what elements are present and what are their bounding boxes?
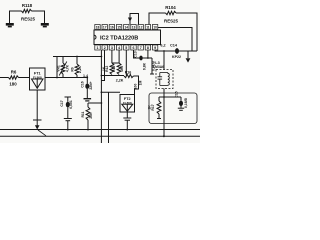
svg-text:1K: 1K bbox=[102, 66, 106, 71]
svg-text:1K: 1K bbox=[148, 105, 152, 110]
svg-text:2,2K: 2,2K bbox=[116, 79, 124, 83]
svg-text:VR1: VR1 bbox=[57, 65, 61, 72]
svg-text:7: 7 bbox=[140, 46, 142, 50]
svg-text:0,16/B: 0,16/B bbox=[184, 97, 188, 108]
svg-text:IC2 TDA1220B: IC2 TDA1220B bbox=[100, 36, 138, 42]
svg-text:C17: C17 bbox=[60, 100, 64, 106]
svg-text:13: 13 bbox=[132, 26, 136, 30]
svg-text:1: 1 bbox=[97, 46, 99, 50]
svg-text:5: 5 bbox=[125, 46, 127, 50]
svg-text:6,8K: 6,8K bbox=[142, 62, 146, 70]
svg-text:4,7K: 4,7K bbox=[66, 64, 70, 72]
svg-text:FL868: FL868 bbox=[123, 101, 132, 105]
svg-text:9: 9 bbox=[154, 46, 156, 50]
svg-text:1K5: 1K5 bbox=[120, 66, 124, 72]
svg-text:R9: R9 bbox=[71, 67, 75, 71]
svg-text:C14: C14 bbox=[170, 44, 178, 48]
svg-text:2,2K: 2,2K bbox=[78, 65, 82, 73]
svg-text:C16: C16 bbox=[81, 81, 85, 87]
svg-text:FL868: FL868 bbox=[33, 75, 42, 79]
svg-text:12: 12 bbox=[139, 26, 143, 30]
svg-text:C15: C15 bbox=[174, 91, 178, 97]
svg-text:RES25: RES25 bbox=[21, 17, 35, 22]
svg-text:22N+: 22N+ bbox=[89, 81, 93, 89]
svg-text:8: 8 bbox=[147, 46, 149, 50]
svg-text:6,2: 6,2 bbox=[160, 44, 165, 48]
svg-text:15: 15 bbox=[117, 26, 121, 30]
svg-text:11: 11 bbox=[146, 26, 150, 30]
svg-text:KP22: KP22 bbox=[172, 55, 181, 59]
svg-text:R6: R6 bbox=[11, 70, 17, 75]
svg-text:1,4: 1,4 bbox=[83, 74, 88, 78]
svg-text:R13: R13 bbox=[112, 66, 116, 72]
svg-text:0,001: 0,001 bbox=[69, 100, 73, 109]
svg-text:4: 4 bbox=[118, 46, 120, 50]
svg-text:0,01/B: 0,01/B bbox=[151, 60, 155, 71]
svg-text:R16: R16 bbox=[125, 71, 132, 75]
svg-text:R11: R11 bbox=[81, 111, 85, 117]
svg-text:RES25: RES25 bbox=[164, 19, 178, 24]
svg-text:10: 10 bbox=[153, 26, 157, 30]
svg-text:16: 16 bbox=[110, 26, 114, 30]
svg-text:R104: R104 bbox=[165, 5, 176, 10]
svg-text:100: 100 bbox=[133, 84, 137, 90]
svg-text:18: 18 bbox=[96, 26, 100, 30]
svg-text:R118: R118 bbox=[22, 3, 33, 8]
svg-text:20K: 20K bbox=[89, 112, 93, 119]
svg-text:1M: 1M bbox=[138, 80, 142, 85]
svg-text:C13: C13 bbox=[134, 51, 138, 57]
svg-text:180: 180 bbox=[9, 82, 17, 87]
svg-text:17: 17 bbox=[103, 26, 107, 30]
svg-text:6: 6 bbox=[133, 46, 135, 50]
svg-text:14: 14 bbox=[125, 26, 129, 30]
svg-text:3: 3 bbox=[111, 46, 113, 50]
svg-text:2: 2 bbox=[104, 46, 106, 50]
